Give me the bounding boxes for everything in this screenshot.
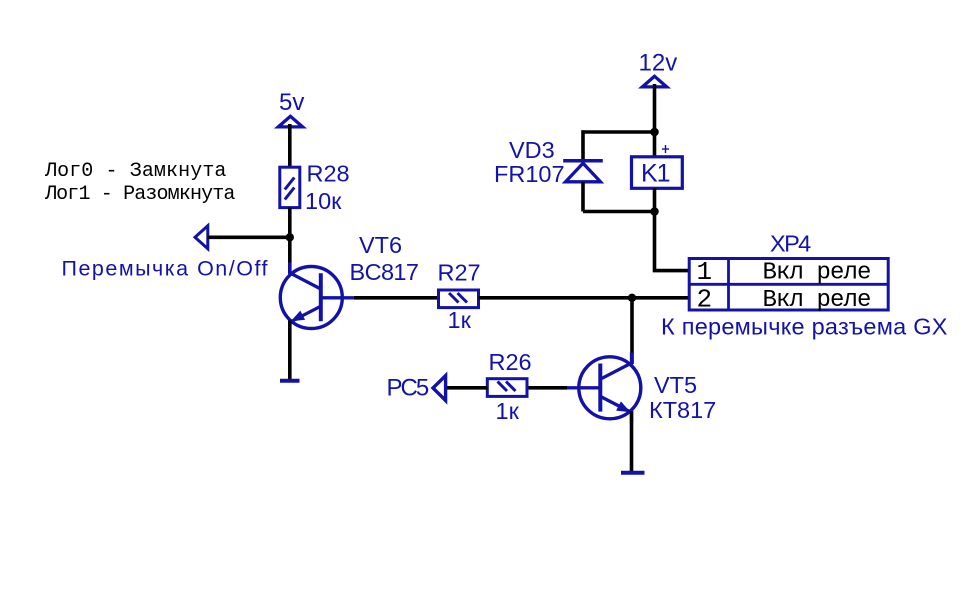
svg-text:1: 1 [697, 257, 713, 287]
wire VD3 bottom to junction [583, 210, 655, 214]
svg-text:R26: R26 [489, 349, 532, 375]
wire top to VD3 [583, 130, 655, 134]
resistor R28 [280, 167, 300, 207]
svg-text:К перемычке разъема GX: К перемычке разъема GX [661, 314, 948, 340]
resistor R27 [439, 290, 479, 308]
svg-text:BC817: BC817 [350, 259, 419, 285]
port arrow Перемычка On/Off [195, 226, 208, 249]
wire 12v to K1 [653, 84, 657, 157]
svg-text:Лог0 - Замкнута: Лог0 - Замкнута [44, 160, 227, 183]
ground VT6 [280, 379, 300, 383]
port arrow PC5 [433, 376, 446, 401]
junction node collector R28 [286, 233, 294, 241]
svg-text:Перемычка On/Off: Перемычка On/Off [62, 257, 270, 281]
resistor R26 [487, 379, 527, 397]
wire VT6 emitter to ground [288, 321, 292, 381]
junction node VT5 collector [628, 294, 636, 302]
svg-text:Лог1 - Разомкнута: Лог1 - Разомкнута [44, 183, 235, 206]
svg-text:K1: K1 [641, 160, 670, 188]
svg-text:2: 2 [697, 284, 713, 314]
svg-text:КТ817: КТ817 [649, 397, 716, 423]
svg-text:Вкл реле: Вкл реле [763, 260, 871, 287]
svg-text:VT5: VT5 [654, 372, 697, 398]
svg-text:1к: 1к [496, 398, 520, 424]
transistor VT6 [280, 263, 356, 332]
svg-text:R27: R27 [438, 260, 481, 286]
svg-text:5v: 5v [279, 89, 304, 116]
wire K1 to XP4 pin1 [655, 188, 690, 270]
wire R27 to XP4 pin2 [479, 296, 690, 300]
relay K1 [632, 157, 683, 189]
connector XP4 [689, 259, 888, 311]
ground VT5 [621, 471, 645, 475]
transistor VT5 [565, 353, 641, 423]
power symbol 5v [278, 116, 302, 127]
wire VD3 cathode side [581, 130, 585, 161]
wire R28 to VT6 collector [288, 208, 292, 274]
wire junction to VT5 collector [630, 298, 634, 364]
junction node VD3 bottom [650, 207, 659, 216]
svg-text:VD3: VD3 [509, 137, 555, 163]
wire arrow to junction [208, 236, 290, 240]
wire R26 to PC5 arrow [446, 386, 487, 390]
power symbol 12v [642, 76, 666, 87]
wire 5v to R28 [288, 124, 292, 167]
svg-text:XP4: XP4 [770, 231, 811, 257]
svg-text:1к: 1к [448, 307, 472, 333]
svg-text:PC5: PC5 [387, 374, 429, 401]
svg-text:R28: R28 [307, 161, 350, 187]
wire VT6 base to R27 [354, 296, 438, 300]
svg-text:Вкл реле: Вкл реле [763, 287, 871, 314]
svg-text:VT6: VT6 [359, 232, 402, 258]
diode VD3 [563, 161, 603, 182]
wire VT5 emitter to ground [630, 411, 634, 473]
wire VD3 anode side [581, 182, 585, 212]
svg-text:12v: 12v [639, 50, 678, 77]
wire VT5 base to R26 [527, 386, 567, 390]
polarity plus [662, 145, 669, 153]
junction node VD3 top [650, 128, 659, 137]
svg-text:10к: 10к [305, 188, 342, 214]
svg-text:FR107: FR107 [494, 161, 565, 187]
